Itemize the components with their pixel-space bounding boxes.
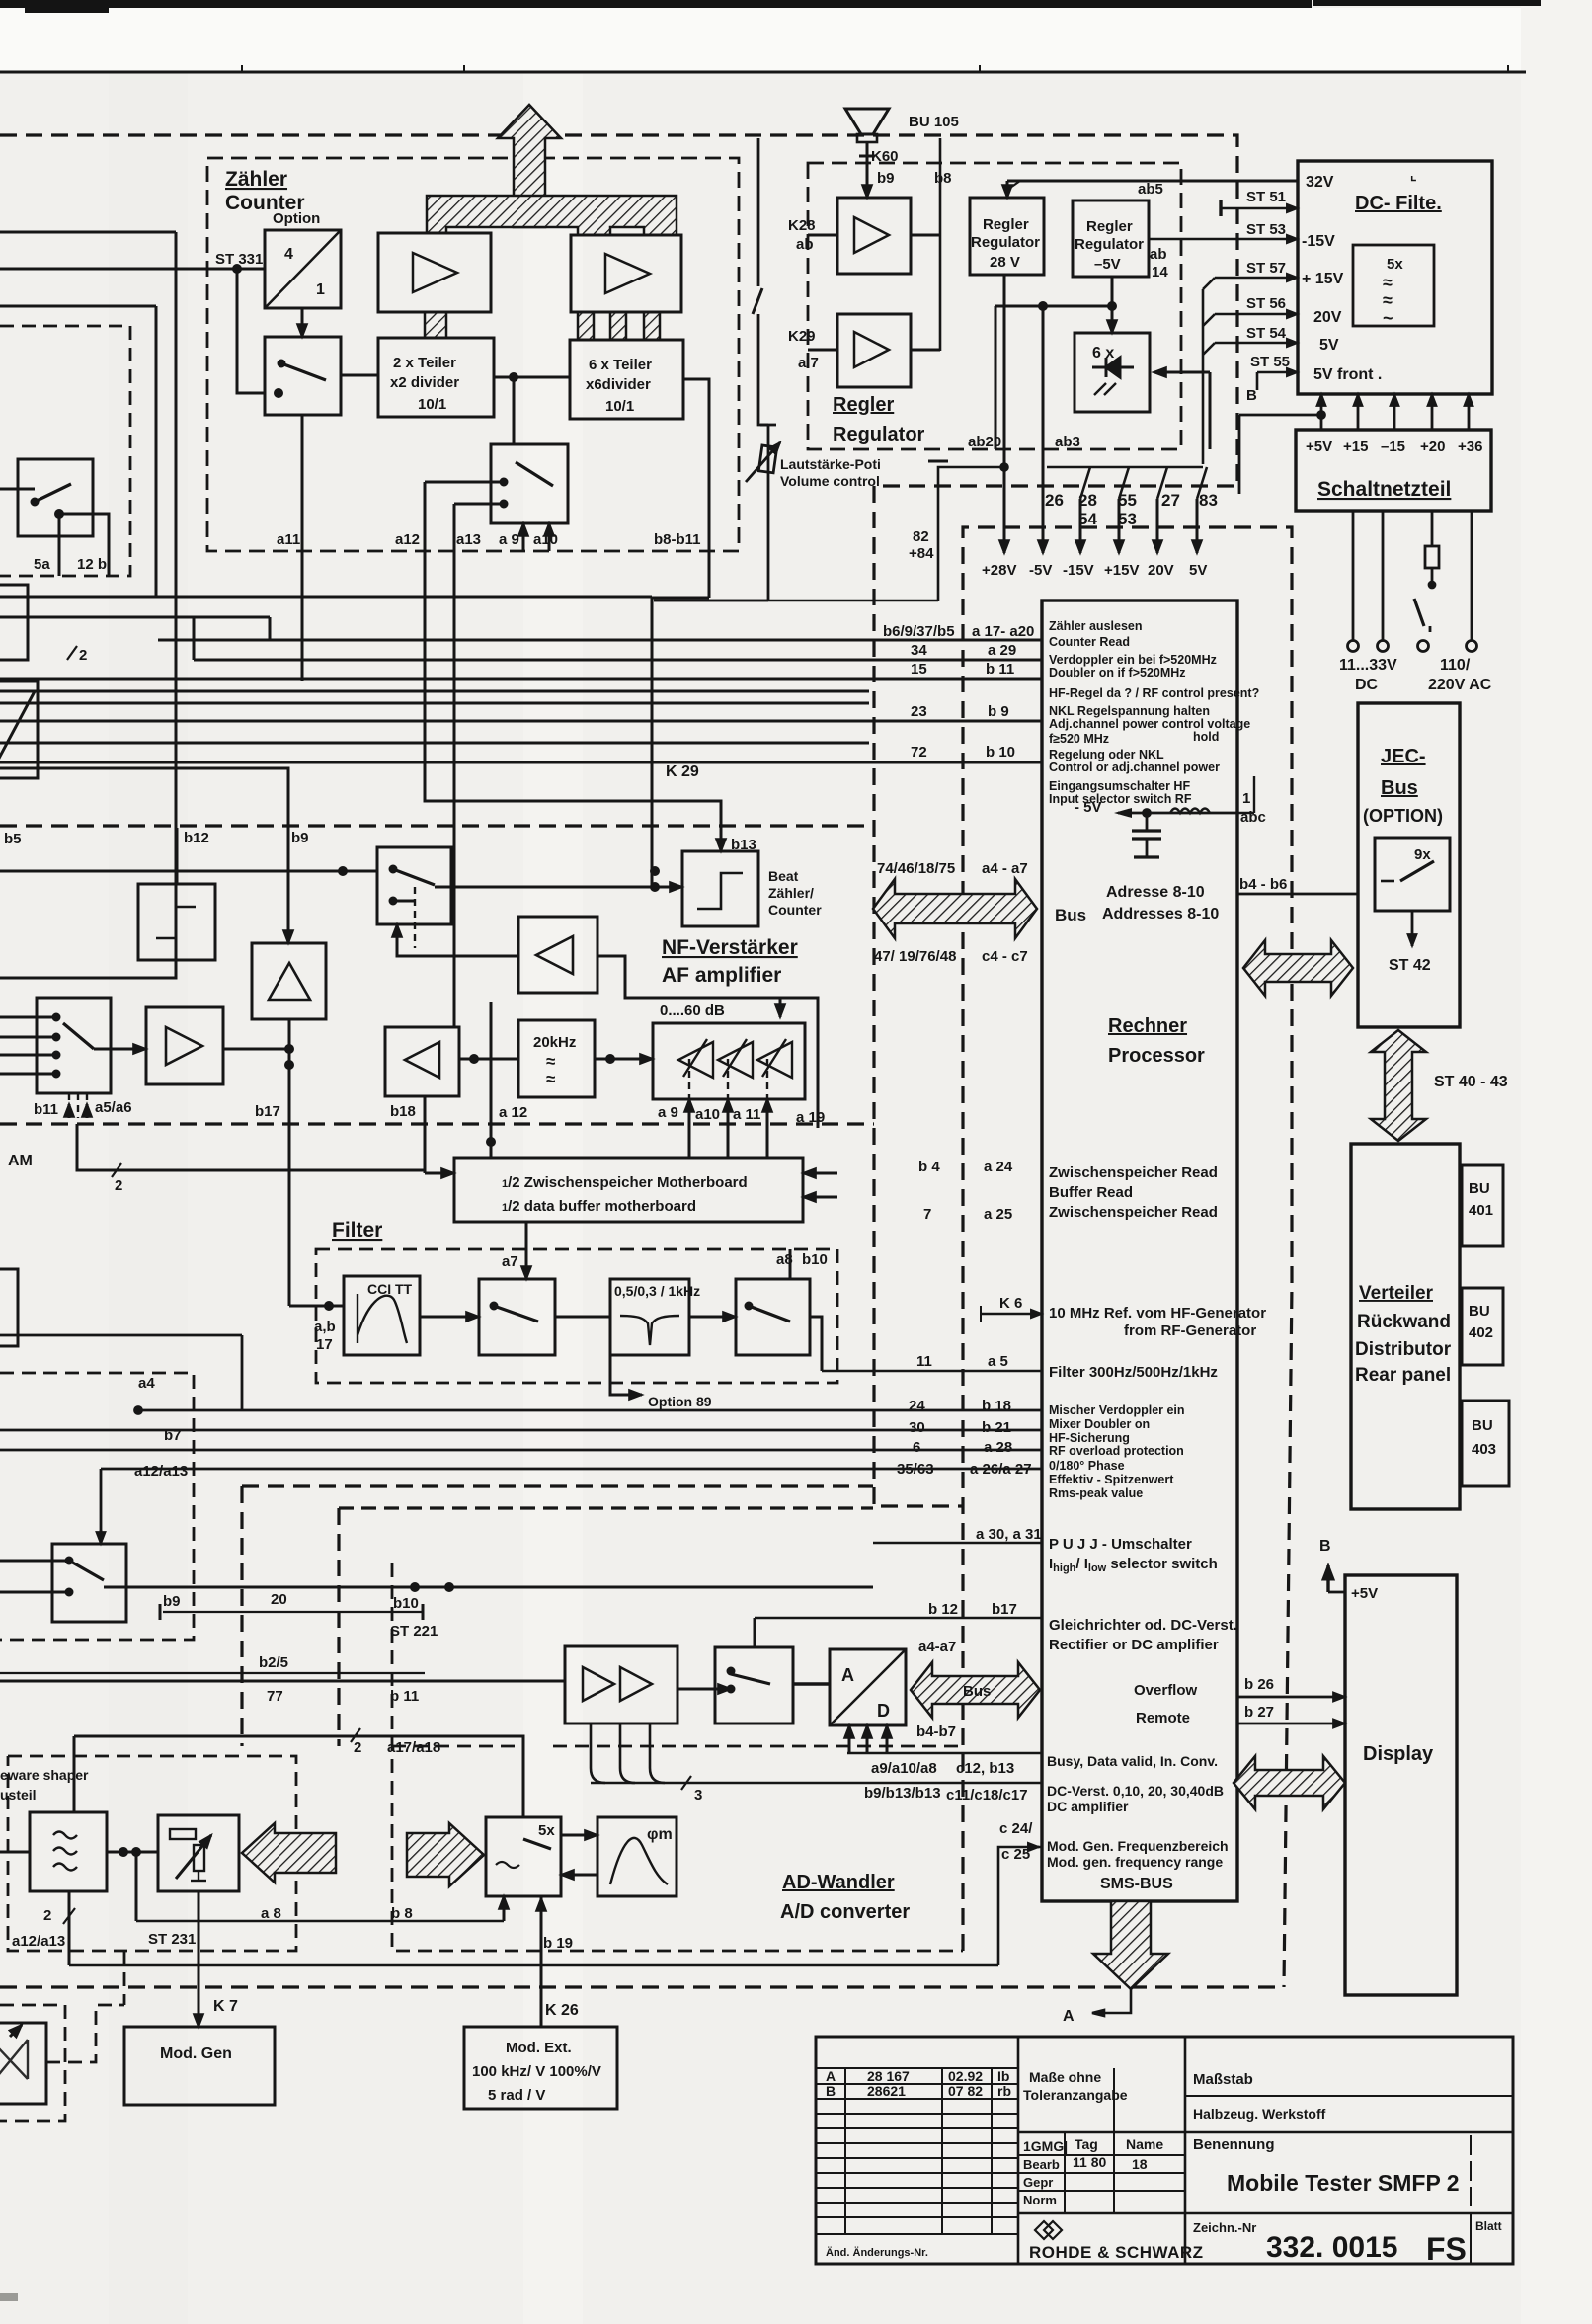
svg-text:Regulator: Regulator — [833, 424, 925, 445]
svg-text:a9/a10/a8: a9/a10/a8 — [871, 1760, 937, 1777]
svg-text:4: 4 — [284, 246, 293, 263]
svg-text:10/1: 10/1 — [605, 398, 634, 415]
svg-text:ab20: ab20 — [968, 434, 1001, 450]
wire b2/5 — [0, 1672, 425, 1674]
svg-text:A: A — [826, 2068, 836, 2084]
svg-text:Zwischenspeicher Read: Zwischenspeicher Read — [1049, 1164, 1218, 1181]
wire PUJJ — [873, 1542, 1042, 1545]
wire 77 into double amp — [0, 1680, 565, 1683]
wire long 1990 — [69, 1964, 998, 1967]
hatched horizontal band — [427, 196, 677, 235]
svg-text:10 MHz Ref. vom HF-Generator: 10 MHz Ref. vom HF-Generator — [1049, 1305, 1266, 1322]
svg-text:CCI TT: CCI TT — [367, 1281, 413, 1297]
wire a17/a18 — [74, 1736, 523, 1817]
svg-text:5V: 5V — [1189, 562, 1207, 579]
svg-text:5a: 5a — [34, 556, 50, 573]
svg-text:1/2 Zwischenspeicher Motherb: 1/2 Zwischenspeicher Motherboard — [502, 1174, 748, 1191]
voltage labels row — [909, 491, 1218, 579]
notch filter box — [610, 1279, 689, 1355]
svg-text:+28V: +28V — [982, 562, 1016, 579]
svg-text:Overflow: Overflow — [1134, 1682, 1198, 1699]
svg-text:~: ~ — [1383, 308, 1393, 328]
wire a12 drop — [490, 1002, 493, 1158]
dashed vertical x245 — [240, 1486, 243, 1746]
svg-text:ab5: ab5 — [1138, 181, 1163, 198]
svg-text:ST 54: ST 54 — [1246, 325, 1287, 342]
wire gleichrichter — [755, 1617, 1042, 1620]
bottom-left triangle dashed box — [0, 2005, 65, 2121]
switch arm S1 — [281, 363, 326, 380]
double amp box V8 — [565, 1646, 677, 1723]
svg-text:hold: hold — [1193, 730, 1219, 744]
svg-text:ST 51: ST 51 — [1246, 189, 1286, 205]
svg-text:Filter: Filter — [332, 1219, 382, 1242]
wire B feed — [938, 467, 1004, 601]
wire 28V down — [1003, 275, 1006, 553]
wire S4 to V6 — [94, 1048, 146, 1051]
svg-text:P U J J - Umschalter: P U J J - Umschalter — [1049, 1536, 1192, 1553]
switch box S9 — [715, 1647, 793, 1723]
svg-text:12 b: 12 b — [77, 556, 107, 573]
svg-text:30: 30 — [909, 1419, 925, 1436]
svg-text:14: 14 — [1152, 264, 1168, 280]
svg-text:a 19: a 19 — [796, 1109, 825, 1126]
NF amplifier section — [0, 768, 818, 1306]
svg-text:Rectifier or DC amplifier: Rectifier or DC amplifier — [1049, 1637, 1219, 1653]
svg-text:b12: b12 — [184, 830, 209, 846]
svg-text:-5V: -5V — [1029, 562, 1052, 579]
wire S5 to beat — [435, 886, 682, 889]
svg-text:BU: BU — [1472, 1417, 1493, 1434]
svg-text:b8-b11: b8-b11 — [654, 531, 701, 548]
svg-text:b 26: b 26 — [1244, 1676, 1274, 1693]
svg-text:Rear panel: Rear panel — [1355, 1365, 1451, 1386]
svg-text:Mixer Doubler on: Mixer Doubler on — [1049, 1417, 1150, 1431]
svg-text:Regler: Regler — [833, 394, 894, 416]
wires 5x to phi-m — [561, 1834, 597, 1837]
svg-text:Counter: Counter — [768, 902, 822, 918]
left revision table — [816, 2068, 1018, 2234]
wire b8 drop to beat line — [652, 598, 709, 887]
svg-text:2 x Teiler: 2 x Teiler — [393, 355, 456, 371]
svg-text:Rms-peak value: Rms-peak value — [1049, 1486, 1143, 1500]
CCITT box — [344, 1276, 420, 1355]
svg-text:Zähler auslesen: Zähler auslesen — [1049, 619, 1143, 633]
svg-text:RF overload protection: RF overload protection — [1049, 1444, 1184, 1458]
svg-text:35/63: 35/63 — [897, 1461, 934, 1478]
amplifier box V2 — [571, 235, 681, 312]
svg-text:Bus: Bus — [1055, 906, 1086, 924]
svg-text:+15V: +15V — [1104, 562, 1139, 579]
wire b17 down — [288, 1049, 291, 1306]
wire V4 out — [911, 349, 940, 352]
svg-text:b 18: b 18 — [982, 1398, 1011, 1414]
hatched band below amp1 — [425, 312, 446, 338]
svg-text:28621: 28621 — [867, 2083, 906, 2099]
svg-text:Doubler on if f>520MHz: Doubler on if f>520MHz — [1049, 666, 1186, 680]
svg-text:b 27: b 27 — [1244, 1704, 1274, 1721]
svg-text:K28: K28 — [788, 217, 816, 234]
regler 28V box — [970, 198, 1044, 275]
svg-text:f≥520 MHz: f≥520 MHz — [1049, 732, 1109, 746]
svg-text:100 kHz/ V 100%/V: 100 kHz/ V 100%/V — [472, 2063, 601, 2080]
svg-text:NKL Regelspannung halten: NKL Regelspannung halten — [1049, 704, 1210, 718]
svg-text:Mischer Verdoppler ein: Mischer Verdoppler ein — [1049, 1403, 1185, 1417]
svg-text:34: 34 — [911, 642, 927, 659]
svg-text:b17: b17 — [255, 1103, 280, 1120]
svg-text:b18: b18 — [390, 1103, 416, 1120]
svg-text:83: 83 — [1199, 491, 1218, 510]
svg-text:+5V: +5V — [1351, 1585, 1378, 1602]
svg-text:1/2 data buffer motherboard: 1/2 data buffer motherboard — [502, 1198, 696, 1215]
svg-text:c 24/: c 24/ — [999, 1820, 1033, 1837]
6x diode box — [1075, 333, 1150, 412]
svg-text:Maße ohne: Maße ohne — [1029, 2069, 1101, 2085]
svg-text:Rechner: Rechner — [1108, 1015, 1187, 1037]
regler -5V box — [1073, 200, 1149, 277]
Mod Ext box — [464, 2027, 617, 2109]
label columns left of processor — [874, 623, 1287, 1863]
svg-text:1GMG|: 1GMG| — [1023, 2138, 1068, 2154]
svg-text:ab3: ab3 — [1055, 434, 1080, 450]
svg-text:A: A — [841, 1665, 854, 1685]
svg-text:54: 54 — [1078, 510, 1097, 528]
svg-text:Remote: Remote — [1136, 1710, 1190, 1726]
svg-text:BU 105: BU 105 — [909, 114, 959, 130]
svg-text:6: 6 — [913, 1439, 920, 1456]
svg-text:b 10: b 10 — [986, 744, 1015, 761]
svg-text:Blatt: Blatt — [1475, 2219, 1502, 2233]
svg-text:- 5V: - 5V — [1075, 799, 1102, 816]
svg-text:a12: a12 — [395, 531, 420, 548]
svg-text:+15: +15 — [1343, 439, 1368, 455]
amp box V6 — [146, 1007, 223, 1084]
svg-text:B: B — [1246, 387, 1257, 404]
svg-text:17: 17 — [316, 1336, 333, 1353]
svg-text:K 6: K 6 — [999, 1295, 1022, 1312]
wire S9 to AD — [793, 1682, 830, 1685]
svg-text:3: 3 — [694, 1787, 702, 1803]
wire into 20kHz — [459, 1058, 518, 1061]
wire K6 — [981, 1313, 1042, 1316]
svg-text:0/180° Phase: 0/180° Phase — [1049, 1459, 1125, 1473]
svg-text:NF-Verstärker: NF-Verstärker — [662, 936, 798, 959]
svg-text:B: B — [1319, 1538, 1331, 1555]
A/D box — [830, 1649, 906, 1725]
svg-text:401: 401 — [1469, 1202, 1493, 1219]
top-left nested dashed box — [0, 326, 963, 2121]
svg-text:BU: BU — [1469, 1303, 1490, 1320]
svg-text:11 80: 11 80 — [1073, 2154, 1106, 2170]
wires a9 a10 up into S2 — [522, 523, 525, 551]
svg-text:Bearb: Bearb — [1023, 2157, 1060, 2172]
svg-text:c 25: c 25 — [1001, 1846, 1030, 1863]
svg-text:+84: +84 — [909, 545, 934, 562]
hatched bands below amp2 — [578, 312, 594, 340]
svg-text:5x: 5x — [1387, 256, 1403, 273]
svg-text:47/ 19/76/48: 47/ 19/76/48 — [874, 948, 956, 965]
long bus wires left — [0, 596, 652, 599]
svg-text:K 29: K 29 — [666, 763, 699, 780]
svg-text:K29: K29 — [788, 328, 816, 345]
wire 20 stub — [163, 1611, 423, 1613]
JEC bus box — [1237, 703, 1460, 1027]
lower-left switch box S8 — [0, 1544, 873, 1817]
svg-text:20kHz: 20kHz — [533, 1034, 576, 1051]
wire S6 to notch — [555, 1316, 610, 1319]
wires into buffer right — [803, 1172, 837, 1175]
wire B +5V — [1326, 1565, 1329, 1592]
svg-text:28: 28 — [1078, 491, 1097, 510]
svg-text:Mod. Gen: Mod. Gen — [160, 2045, 232, 2062]
svg-text:b 12: b 12 — [928, 1601, 958, 1618]
speaker symbol BU105 — [845, 109, 940, 351]
svg-text:a13: a13 — [456, 531, 481, 548]
svg-text:a 9: a 9 — [658, 1104, 678, 1121]
svg-text:Zähler/: Zähler/ — [768, 885, 814, 901]
svg-text:11...33V: 11...33V — [1339, 657, 1397, 674]
wire into CCITT — [289, 1305, 344, 1308]
svg-text:26: 26 — [1045, 491, 1064, 510]
svg-text:Regulator: Regulator — [971, 234, 1040, 251]
right section lines — [1185, 2095, 1513, 2097]
wire top-left horizontals — [0, 231, 176, 234]
svg-text:Zwischenspeicher Read: Zwischenspeicher Read — [1049, 1204, 1218, 1221]
82/+84 tick — [928, 461, 948, 467]
svg-text:Adresse 8-10: Adresse 8-10 — [1106, 884, 1205, 901]
wire V3 out — [911, 234, 940, 237]
Filter dashed box — [316, 1249, 837, 1383]
volume pot symbol — [654, 138, 780, 601]
svg-text:55: 55 — [1118, 491, 1137, 510]
svg-text:eware shaper: eware shaper — [0, 1767, 89, 1783]
riser wires from regulators to ST — [654, 464, 1207, 601]
svg-text:b 9: b 9 — [988, 703, 1009, 720]
svg-text:≈: ≈ — [1383, 273, 1393, 292]
Processor (Rechner) box — [1042, 601, 1237, 1901]
svg-text:28 167: 28 167 — [867, 2068, 910, 2084]
wire a8 b8 line — [136, 1920, 504, 1923]
svg-text:–15: –15 — [1381, 439, 1405, 455]
svg-text:⌞: ⌞ — [1410, 167, 1417, 183]
svg-text:x6divider: x6divider — [586, 376, 651, 393]
bottom modulator section — [0, 1773, 998, 2109]
svg-text:Regelung oder NKL: Regelung oder NKL — [1049, 748, 1164, 761]
svg-text:ROHDE & SCHWARZ: ROHDE & SCHWARZ — [1029, 2243, 1204, 2262]
svg-text:Eingangsumschalter HF: Eingangsumschalter HF — [1049, 779, 1190, 793]
svg-text:1: 1 — [316, 281, 325, 298]
wire 3-line — [591, 1782, 1042, 1785]
Verteiler box — [1351, 1144, 1509, 1509]
wire into F1 bottom — [0, 960, 176, 978]
switch box S5 — [377, 847, 451, 924]
svg-text:Busy, Data valid, In. Conv.: Busy, Data valid, In. Conv. — [1047, 1753, 1218, 1769]
switch box S2 — [491, 444, 568, 523]
svg-text:Option: Option — [273, 210, 320, 227]
svg-text:a,b: a,b — [314, 1319, 336, 1335]
amplifier box V1 — [378, 233, 491, 312]
wire b19 — [540, 1896, 543, 2027]
svg-text:ST 53: ST 53 — [1246, 221, 1286, 238]
Schaltnetzteil box — [1296, 430, 1491, 511]
svg-text:HF-Sicherung: HF-Sicherung — [1049, 1431, 1130, 1445]
svg-text:Display: Display — [1363, 1743, 1434, 1765]
wires DC-filter to Schaltnetzteil — [1239, 394, 1469, 494]
svg-text:5x: 5x — [538, 1822, 555, 1839]
wire -5V col down — [1042, 306, 1045, 553]
triangle amp box V5 — [252, 943, 326, 1019]
svg-text:a 9: a 9 — [499, 531, 519, 548]
wire filter out — [810, 1317, 822, 1371]
svg-text:ST 56: ST 56 — [1246, 295, 1286, 312]
svg-text:b9: b9 — [163, 1593, 181, 1610]
svg-text:+5V: +5V — [1306, 439, 1332, 455]
Zaehler counter dashed box — [207, 158, 739, 551]
hatched arrow into 5x — [407, 1823, 484, 1886]
svg-text:b9/b13/b13: b9/b13/b13 — [864, 1785, 941, 1802]
top-left partial circuit — [0, 232, 1042, 978]
svg-text:2: 2 — [115, 1177, 122, 1194]
svg-text:b2/5: b2/5 — [259, 1654, 288, 1671]
svg-text:6 x Teiler: 6 x Teiler — [589, 357, 652, 373]
svg-text:a4: a4 — [138, 1375, 155, 1392]
wire option 89 — [610, 1355, 642, 1395]
wires overflow remote — [1237, 1696, 1345, 1699]
svg-text:b 8: b 8 — [391, 1905, 413, 1922]
svg-text:1: 1 — [1242, 790, 1250, 807]
svg-text:20V: 20V — [1148, 562, 1174, 579]
svg-text:ST 231: ST 231 — [148, 1931, 196, 1948]
option divider box U1 — [265, 230, 341, 308]
svg-text:07 82: 07 82 — [948, 2083, 983, 2099]
wire V7 to S5 — [397, 924, 518, 956]
svg-text:K 7: K 7 — [213, 1998, 238, 2015]
svg-text:2: 2 — [354, 1739, 361, 1756]
regulator amp box V4 — [837, 314, 911, 387]
svg-text:a7: a7 — [502, 1253, 518, 1270]
title block — [816, 2037, 1513, 2264]
svg-text:c11/c18/c17: c11/c18/c17 — [946, 1787, 1028, 1803]
svg-text:a 24: a 24 — [984, 1159, 1013, 1175]
svg-text:DC amplifier: DC amplifier — [1047, 1799, 1129, 1814]
svg-text:15: 15 — [911, 661, 927, 678]
svg-text:b10: b10 — [393, 1595, 419, 1612]
svg-text:ST 331: ST 331 — [215, 251, 263, 268]
svg-text:Schaltnetzteil: Schaltnetzteil — [1317, 478, 1451, 501]
svg-text:2: 2 — [79, 647, 87, 664]
arrows attenuator to buffer — [688, 1099, 691, 1158]
svg-text:SMS-BUS: SMS-BUS — [1100, 1876, 1173, 1892]
display bus arrow (hatched) — [1234, 1756, 1345, 1809]
svg-text:DC: DC — [1355, 677, 1379, 693]
Filter section — [289, 1222, 822, 1395]
left dashed box a4 — [0, 1373, 194, 1640]
svg-text:332. 0015: 332. 0015 — [1266, 2231, 1397, 2264]
svg-text:from RF-Generator: from RF-Generator — [1124, 1322, 1256, 1339]
svg-text:Input selector switch RF: Input selector switch RF — [1049, 792, 1192, 806]
svg-text:23: 23 — [911, 703, 927, 720]
dashed b11/a5a6 below S4 — [69, 1093, 87, 1118]
svg-text:5V front .: 5V front . — [1313, 366, 1382, 383]
svg-text:a10: a10 — [533, 531, 558, 548]
phi-m box — [597, 1817, 677, 1896]
sine filter box — [30, 1812, 107, 1891]
svg-text:a 11: a 11 — [733, 1106, 760, 1123]
svg-text:Regulator: Regulator — [1075, 236, 1144, 253]
wire 32V line — [1007, 180, 1298, 183]
svg-text:Adj.channel power control volt: Adj.channel power control voltage — [1049, 717, 1250, 731]
svg-text:b 11: b 11 — [390, 1688, 419, 1705]
wire AM line — [77, 1124, 425, 1170]
frame line top — [0, 71, 1526, 74]
svg-text:Mod. gen. frequency range: Mod. gen. frequency range — [1047, 1854, 1223, 1870]
svg-text:28 V: 28 V — [990, 254, 1020, 271]
dashed line mid b5-b13 — [0, 824, 874, 827]
svg-text:b 4: b 4 — [918, 1159, 940, 1175]
resistor symbols inside pot box — [170, 1829, 196, 1839]
svg-text:Mobile Tester SMFP 2: Mobile Tester SMFP 2 — [1227, 2170, 1460, 2196]
attenuator box 0-60dB — [653, 1023, 805, 1099]
svg-text:10/1: 10/1 — [418, 396, 446, 413]
hatched up arrow counter — [425, 105, 677, 340]
svg-text:Bus: Bus — [1381, 777, 1418, 799]
wire 2x to 6x — [494, 376, 570, 379]
divider box 2x — [378, 338, 494, 417]
Regler regulator dashed box — [808, 163, 1181, 449]
switch box S6 — [479, 1279, 555, 1355]
svg-text:Zähler: Zähler — [225, 168, 287, 191]
svg-text:Verteiler: Verteiler — [1359, 1283, 1434, 1304]
wire -5V down to 6x — [1111, 277, 1114, 333]
long mid wires — [0, 1269, 1042, 1544]
svg-text:B: B — [826, 2083, 836, 2099]
svg-text:a11: a11 — [277, 531, 300, 548]
svg-text:Gleichrichter od. DC-Verst.: Gleichrichter od. DC-Verst. — [1049, 1617, 1237, 1634]
svg-text:b 11: b 11 — [986, 661, 1014, 678]
svg-text:DC-Verst. 0,10, 20, 30,40dB: DC-Verst. 0,10, 20, 30,40dB — [1047, 1783, 1224, 1799]
svg-text:Filter 300Hz/500Hz/1kHz: Filter 300Hz/500Hz/1kHz — [1049, 1364, 1218, 1381]
svg-text:a 5: a 5 — [988, 1353, 1008, 1370]
svg-text:ab: ab — [796, 236, 814, 253]
switch box S3 left — [18, 459, 93, 536]
svg-text:5 rad / V: 5 rad / V — [488, 2087, 545, 2104]
ST connector wires — [1149, 200, 1298, 464]
svg-text:b6/9/37/b5: b6/9/37/b5 — [883, 623, 955, 640]
svg-text:a 25: a 25 — [984, 1206, 1012, 1223]
svg-text:Effektiv - Spitzenwert: Effektiv - Spitzenwert — [1049, 1473, 1174, 1486]
svg-text:220V AC: 220V AC — [1428, 677, 1492, 693]
svg-text:JEC-: JEC- — [1381, 746, 1426, 767]
svg-text:82: 82 — [913, 528, 929, 545]
wire 20kHz to attenuator — [595, 1058, 653, 1061]
svg-text:Volume control: Volume control — [780, 473, 880, 489]
svg-text:≈: ≈ — [546, 1070, 555, 1088]
svg-text:Maßstab: Maßstab — [1193, 2071, 1253, 2088]
svg-text:Name: Name — [1126, 2136, 1163, 2152]
Zwischenspeicher box — [425, 1002, 837, 1222]
svg-text:b17: b17 — [992, 1601, 1017, 1618]
svg-text:HF-Regel da ? / RF control pre: HF-Regel da ? / RF control present? — [1049, 686, 1259, 700]
AD converter section — [565, 1618, 1042, 1790]
dashed SMS domain box — [963, 527, 1292, 1987]
svg-text:b4 - b6: b4 - b6 — [1239, 876, 1287, 893]
svg-text:Regler: Regler — [983, 216, 1029, 233]
svg-text:Gepr: Gepr — [1023, 2175, 1053, 2190]
wire K7 — [198, 1891, 200, 2027]
page-wide dashed line bottom — [0, 1985, 1284, 1988]
svg-text:Rückwand: Rückwand — [1357, 1312, 1451, 1332]
svg-text:K60: K60 — [871, 148, 899, 165]
